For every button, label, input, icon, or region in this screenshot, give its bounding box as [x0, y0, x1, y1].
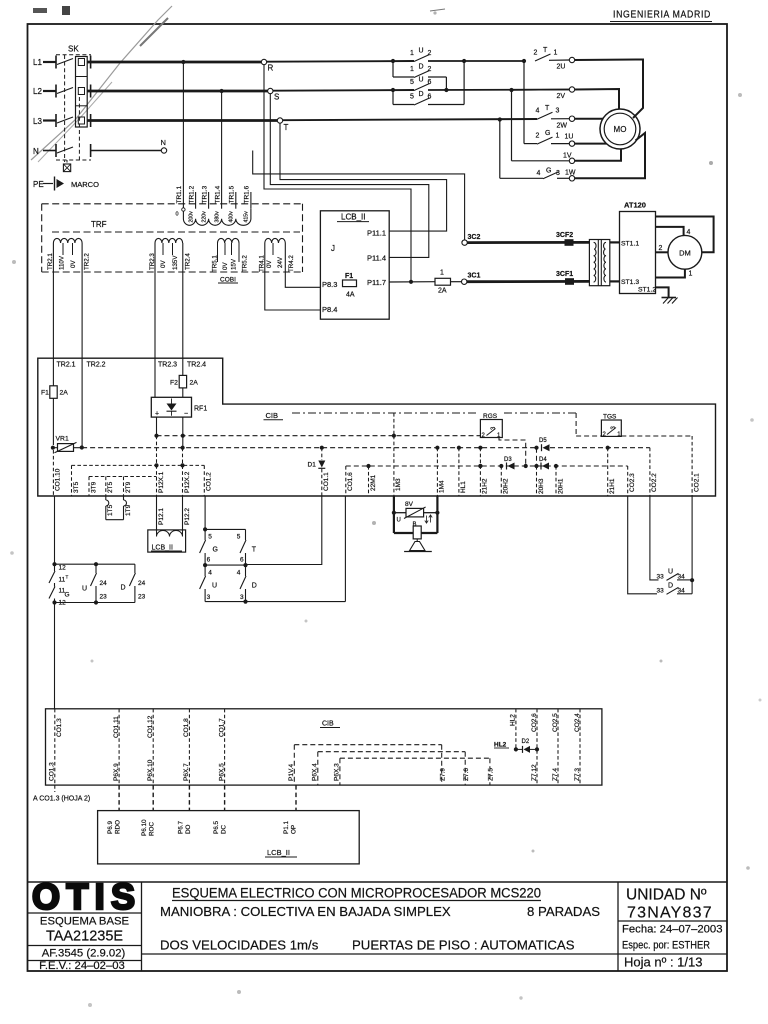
- svg-text:33: 33: [657, 587, 665, 594]
- terminal 1V: [569, 158, 574, 163]
- svg-text:135V: 135V: [172, 255, 179, 270]
- wire 1D2 branch: [392, 61, 394, 77]
- svg-text:DO: DO: [185, 824, 192, 834]
- wire 20H2 stub: [500, 466, 502, 496]
- wire 2T9 stub: [123, 477, 125, 497]
- svg-text:3T5: 3T5: [73, 481, 80, 493]
- svg-text:L3: L3: [33, 117, 42, 126]
- wire DM-AT120 1: [656, 269, 685, 277]
- bus line 435 (RF1 minus): [157, 435, 481, 437]
- wire CO1.6 stub: [345, 466, 347, 496]
- svg-text:HL2: HL2: [510, 714, 517, 726]
- svg-text:MARCO: MARCO: [71, 180, 99, 189]
- terminal 2V: [569, 87, 574, 92]
- fuse F1 2A: [50, 386, 57, 399]
- wire CO2.3 upper: [627, 466, 629, 496]
- wire TR2.1 lead: [52, 243, 54, 386]
- svg-text:5: 5: [237, 534, 241, 541]
- svg-text:2: 2: [534, 50, 538, 57]
- svg-text:TR1.4: TR1.4: [214, 185, 221, 203]
- svg-text:COBI: COBI: [220, 277, 236, 284]
- svg-text:D2: D2: [522, 739, 530, 745]
- svg-text:5: 5: [208, 534, 212, 541]
- svg-text:TR1.5: TR1.5: [229, 185, 236, 203]
- junction 1U2 left: [391, 59, 395, 63]
- svg-text:3C1: 3C1: [468, 273, 481, 280]
- svg-text:P12.1: P12.1: [158, 508, 165, 525]
- svg-text:1V: 1V: [563, 153, 572, 160]
- wire motor 1U: [575, 143, 607, 145]
- diode D2: [516, 748, 523, 750]
- svg-text:400v: 400v: [229, 211, 235, 223]
- wire 5D6 right: [428, 104, 464, 106]
- svg-text:TR2.4: TR2.4: [184, 253, 191, 270]
- wire 5D6 branch: [392, 90, 394, 105]
- svg-text:3T9: 3T9: [90, 481, 97, 493]
- relay TGS: [601, 420, 621, 436]
- secondary winding TR4.1-TR4.2: [265, 238, 286, 243]
- dashed bracket P6X.3-Z7.5: [340, 757, 490, 759]
- inductor 1T5: [105, 496, 107, 500]
- wire CO1.10 to contact block: [54, 496, 56, 564]
- svg-text:2A: 2A: [190, 380, 199, 387]
- svg-text:S: S: [274, 93, 279, 102]
- svg-text:D3: D3: [504, 457, 512, 463]
- contact T 5-6: [245, 529, 247, 540]
- svg-text:12: 12: [59, 565, 67, 572]
- wire CO2.3 down: [628, 496, 657, 594]
- svg-text:P11.1: P11.1: [367, 228, 386, 237]
- wire CO2.1 down: [691, 496, 693, 594]
- wire 3T5 stub: [71, 465, 73, 496]
- svg-text:1W: 1W: [565, 170, 576, 177]
- svg-text:6: 6: [428, 79, 432, 86]
- wire 1U2 right: [428, 60, 524, 62]
- node T: [277, 118, 282, 123]
- terminal 1U: [569, 141, 574, 146]
- svg-text:P6X.3: P6X.3: [334, 763, 341, 781]
- motor MO: [600, 109, 640, 149]
- ground: [662, 297, 677, 299]
- paper noise speckles: [709, 161, 713, 165]
- svg-text:D: D: [121, 585, 126, 592]
- controller LCB_II box lower: [98, 811, 360, 864]
- svg-text:20H3: 20H3: [538, 478, 545, 494]
- contact block G door left: [52, 562, 56, 566]
- svg-text:PUERTAS DE PISO : AUTOMATICAS: PUERTAS DE PISO : AUTOMATICAS: [352, 938, 575, 953]
- wire CO1.6 down: [344, 496, 346, 602]
- inductor 1T9: [123, 496, 125, 500]
- svg-text:CO2.3: CO2.3: [629, 473, 636, 492]
- switch SK blades: [57, 59, 73, 65]
- diode D5: [543, 444, 550, 451]
- svg-text:Z7.9: Z7.9: [439, 768, 446, 781]
- wire CO1.2 stub: [203, 465, 205, 496]
- junction L2-TR1.4: [220, 89, 224, 93]
- svg-text:MO: MO: [614, 125, 627, 134]
- svg-text:TR2.1: TR2.1: [57, 362, 76, 369]
- svg-text:P11.4: P11.4: [367, 254, 386, 263]
- svg-text:5: 5: [410, 79, 414, 86]
- svg-text:LCB_II: LCB_II: [152, 545, 173, 552]
- wire CO1.11/P6X.9: [118, 709, 120, 785]
- svg-text:73NAY837: 73NAY837: [627, 905, 713, 922]
- svg-text:24V: 24V: [277, 256, 284, 268]
- wire ST1.2 to ground: [656, 287, 669, 297]
- wire AT120-DM top: [656, 227, 684, 235]
- svg-text:CO1.10: CO1.10: [55, 468, 62, 491]
- svg-text:CO2.6: CO2.6: [531, 713, 538, 732]
- svg-text:T: T: [66, 575, 69, 580]
- diode D1 on CO1.1: [321, 448, 323, 460]
- connector 3CF2: [565, 239, 574, 246]
- svg-text:TR1.2: TR1.2: [188, 185, 195, 203]
- svg-text:CO1.2: CO1.2: [206, 472, 213, 491]
- svg-text:F.E.V.: 24–02–03: F.E.V.: 24–02–03: [39, 960, 125, 972]
- svg-text:N: N: [33, 147, 39, 156]
- svg-text:TAA21235E: TAA21235E: [46, 929, 123, 945]
- terminal 3C2: [462, 240, 467, 245]
- wire motor 1V: [575, 149, 621, 161]
- transformer TRF core dashed line: [52, 231, 300, 233]
- svg-text:2: 2: [659, 245, 663, 252]
- wire AT120-DM 2: [656, 251, 668, 253]
- junction P11.7: [409, 280, 413, 284]
- svg-text:SK: SK: [68, 45, 79, 54]
- svg-text:CO2.2: CO2.2: [651, 473, 658, 492]
- svg-text:2T9: 2T9: [125, 481, 132, 493]
- secondary winding TR2.3-TR2.4: [155, 238, 183, 243]
- svg-text:RDO: RDO: [115, 820, 122, 834]
- wire TR4.2 to P8.3: [285, 243, 320, 287]
- wire motor 2V: [575, 89, 619, 109]
- dashed bracket P1V.4-Z7.9: [294, 744, 441, 746]
- wire N to 3C2: [253, 151, 465, 240]
- rectifier RF1: [151, 397, 191, 417]
- svg-text:CO1.7: CO1.7: [218, 718, 225, 737]
- transformer TRF dashed box: [42, 203, 303, 205]
- svg-text:TR1.3: TR1.3: [201, 185, 208, 203]
- secondary winding TR2.1-TR2.2: [53, 238, 82, 243]
- wire RF1 minus lead: [156, 417, 158, 436]
- svg-text:1: 1: [554, 50, 558, 57]
- svg-text:+: +: [155, 411, 159, 418]
- wire 5U6 right: [428, 89, 572, 92]
- title block frame: [28, 881, 728, 883]
- wire mid row: [205, 564, 245, 566]
- svg-text:2: 2: [536, 133, 540, 140]
- wire G-T top row: [205, 528, 245, 530]
- wire 3T9 stub: [88, 477, 90, 497]
- wire 2T5 stub: [105, 477, 107, 497]
- svg-text:D5: D5: [539, 438, 547, 444]
- contact U 4-3: [204, 565, 206, 576]
- svg-text:21H1: 21H1: [609, 478, 616, 494]
- switch SK pole brackets: [55, 56, 57, 69]
- wire CO1.2 to G/T contacts: [204, 496, 206, 529]
- wire N main: [91, 150, 162, 152]
- svg-text:T: T: [543, 47, 548, 54]
- fuse F1 4A: [343, 280, 357, 287]
- wire L3 main: [87, 119, 277, 122]
- wires CIB to LCB_II: [118, 785, 120, 811]
- coil LCB_II box: [148, 530, 186, 552]
- svg-text:HL1: HL1: [460, 481, 467, 493]
- wire 4G3 branch: [499, 120, 501, 179]
- svg-text:20H2: 20H2: [503, 478, 510, 494]
- svg-text:415v: 415v: [244, 211, 250, 223]
- wire 5D6 to 1U2: [463, 61, 465, 105]
- svg-text:0: 0: [176, 212, 179, 218]
- wire P12.2: [182, 496, 184, 532]
- svg-text:0V: 0V: [70, 260, 77, 268]
- junction L1-TR1.1: [181, 60, 185, 64]
- svg-text:Z7.12: Z7.12: [531, 764, 538, 781]
- wire RF1 plus lead: [182, 417, 184, 448]
- wire CO1.12/P6X.10: [152, 709, 154, 785]
- svg-text:HL2: HL2: [494, 742, 507, 749]
- svg-text:1: 1: [689, 271, 693, 278]
- svg-text:Z7.4: Z7.4: [552, 768, 559, 781]
- secondary winding TR5.1-TR5.2 COBI: [218, 238, 240, 243]
- bus hB: [89, 476, 157, 478]
- wire HL1 stub: [458, 448, 460, 496]
- wire TR2.3 lead: [154, 243, 156, 397]
- wire contact row bottom-left: [55, 602, 135, 604]
- bus hA: [72, 464, 205, 466]
- earth symbol PE / MARCO: [43, 183, 53, 185]
- bus line 466: [346, 465, 628, 467]
- wire CO2.6/Z7.12: [536, 709, 538, 785]
- svg-text:23: 23: [100, 594, 108, 601]
- contact 2G1: [537, 137, 553, 144]
- bus line 448 (RF1 plus): [82, 447, 538, 449]
- svg-text:TRF: TRF: [91, 220, 107, 229]
- svg-text:2U: 2U: [557, 64, 566, 71]
- svg-text:U: U: [212, 583, 217, 590]
- svg-text:ESQUEMA ELECTRICO CON MICROPRO: ESQUEMA ELECTRICO CON MICROPROCESADOR MC…: [172, 886, 541, 902]
- svg-text:6: 6: [428, 94, 432, 101]
- svg-text:8V: 8V: [405, 501, 414, 508]
- svg-text:CO1.1: CO1.1: [323, 472, 330, 491]
- svg-text:22M1: 22M1: [370, 474, 377, 491]
- svg-text:P6.7: P6.7: [178, 821, 185, 834]
- svg-text:21H2: 21H2: [482, 478, 489, 494]
- buzzer element: [413, 526, 421, 539]
- wire 2V row: [512, 89, 570, 92]
- svg-text:Fecha: 24–07–2003: Fecha: 24–07–2003: [622, 924, 723, 936]
- svg-text:4: 4: [208, 570, 212, 577]
- svg-text:T: T: [252, 547, 257, 554]
- svg-text:CO2.5: CO2.5: [552, 713, 559, 732]
- motor DM: [668, 235, 702, 269]
- svg-text:VR1: VR1: [56, 436, 69, 443]
- fuse block SK: [76, 57, 88, 128]
- svg-text:CO1.8: CO1.8: [183, 718, 190, 737]
- wire T row: [283, 119, 537, 120]
- connector 3CF1: [565, 278, 574, 285]
- wire contact row top-left: [55, 563, 135, 565]
- svg-text:2W: 2W: [557, 123, 568, 130]
- wire L2 main: [87, 90, 267, 93]
- diode D3: [508, 463, 515, 470]
- wire 22M1 stub: [368, 466, 370, 496]
- annotation A CO1.3 HOJA 2: [54, 785, 56, 792]
- svg-text:1U: 1U: [565, 134, 574, 141]
- svg-text:110V: 110V: [58, 255, 65, 270]
- fuse 1 2A: [435, 278, 451, 285]
- svg-text:DM: DM: [679, 248, 691, 257]
- contact 5U6: [414, 84, 430, 91]
- contact U 23-24: [95, 564, 97, 573]
- wire P12X.1: [156, 436, 158, 496]
- svg-text:P1V.4: P1V.4: [288, 764, 295, 781]
- svg-text:N: N: [161, 138, 166, 147]
- svg-text:4: 4: [537, 170, 541, 177]
- fuse F2 2A: [179, 375, 186, 388]
- svg-text:DC: DC: [221, 824, 228, 834]
- scan artifact diagonal pencil mark: [31, 6, 172, 160]
- contact 2T1: [535, 54, 551, 61]
- svg-text:TGS: TGS: [603, 414, 617, 421]
- wire S to P11.4: [270, 94, 429, 258]
- wire CO1.10 stub: [52, 450, 54, 496]
- svg-text:P8.3: P8.3: [322, 280, 337, 289]
- primary lead stubs: [195, 192, 197, 209]
- svg-text:L1: L1: [33, 58, 42, 67]
- battery 8V and alarm bell: [393, 496, 395, 533]
- svg-text:TR1.1: TR1.1: [176, 185, 183, 203]
- svg-text:P11.7: P11.7: [367, 278, 386, 287]
- terminal 1W: [569, 176, 574, 181]
- svg-text:TR2.2: TR2.2: [87, 362, 106, 369]
- wire CO1.7/P6X.5: [224, 709, 226, 785]
- CIB dash-dot boundary: [292, 412, 478, 414]
- svg-text:G: G: [545, 130, 550, 137]
- wire 20H3 up-link: [536, 448, 538, 466]
- contact 4T3: [537, 112, 553, 119]
- svg-text:ST1.1: ST1.1: [621, 240, 639, 247]
- svg-text:AT120: AT120: [624, 201, 646, 210]
- svg-text:G: G: [546, 168, 551, 175]
- svg-text:RGS: RGS: [483, 413, 498, 420]
- svg-text:ST1.2: ST1.2: [638, 286, 656, 293]
- svg-text:D: D: [252, 583, 257, 590]
- svg-text:1M3: 1M3: [395, 478, 402, 491]
- svg-text:2T5: 2T5: [107, 481, 114, 493]
- svg-text:ESQUEMA BASE: ESQUEMA BASE: [40, 916, 130, 928]
- svg-text:TR5.1: TR5.1: [211, 255, 218, 272]
- contact 1D2: [414, 71, 430, 78]
- svg-text:3CF2: 3CF2: [556, 232, 573, 239]
- svg-text:24: 24: [138, 580, 146, 587]
- wire bottom row to CO1.6: [205, 601, 345, 603]
- junction 5U6 left: [391, 88, 395, 92]
- svg-text:P12.2: P12.2: [184, 508, 191, 525]
- svg-text:Z7.3: Z7.3: [574, 768, 581, 781]
- contact 4G3: [543, 172, 559, 179]
- svg-text:P6.5: P6.5: [213, 821, 220, 834]
- wire CO2.2 upper: [649, 448, 651, 496]
- wire 20H1 stub: [555, 466, 557, 496]
- svg-text:MANIOBRA : COLECTIVA EN BAJADA: MANIOBRA : COLECTIVA EN BAJADA SIMPLEX: [160, 904, 451, 919]
- svg-text:Z7.5: Z7.5: [488, 768, 495, 781]
- svg-text:P6X.5: P6X.5: [218, 763, 225, 781]
- svg-text:INGENIERIA MADRID: INGENIERIA MADRID: [613, 9, 711, 21]
- node N: [161, 148, 166, 153]
- terminal 2U: [569, 57, 574, 62]
- svg-text:U: U: [397, 518, 401, 524]
- svg-text:24: 24: [100, 580, 108, 587]
- svg-text:F2: F2: [170, 380, 178, 387]
- svg-text:TR4.2: TR4.2: [288, 255, 295, 272]
- svg-text:3: 3: [556, 108, 560, 115]
- primary lead TR1.4 from L2: [221, 91, 223, 209]
- svg-text:OP: OP: [291, 825, 298, 834]
- svg-text:U: U: [668, 569, 673, 576]
- svg-text:Hoja nº : 1/13: Hoja nº : 1/13: [624, 955, 702, 970]
- svg-text:PE: PE: [33, 180, 44, 189]
- svg-text:−: −: [184, 411, 188, 418]
- svg-text:CO1.6: CO1.6: [347, 472, 354, 491]
- svg-text:OTIS: OTIS: [32, 876, 136, 917]
- junction 33U34-CO2.1: [690, 578, 694, 582]
- svg-text:4: 4: [237, 570, 241, 577]
- node S: [268, 88, 273, 93]
- svg-text:ST1.3: ST1.3: [621, 279, 639, 286]
- svg-text:T: T: [284, 123, 289, 132]
- svg-text:U: U: [419, 48, 424, 55]
- relay RGS: [480, 420, 502, 438]
- svg-text:CO2.1: CO2.1: [693, 473, 700, 492]
- svg-text:TR2.4: TR2.4: [187, 362, 206, 369]
- svg-text:1T5: 1T5: [107, 504, 114, 516]
- svg-text:3C2: 3C2: [468, 234, 481, 241]
- primary lead TR1.1 from L1: [182, 62, 184, 209]
- svg-text:A CO1.3 (HOJA 2): A CO1.3 (HOJA 2): [33, 796, 90, 803]
- svg-text:CO1.11: CO1.11: [113, 716, 120, 738]
- svg-text:Espec. por: ESTHER: Espec. por: ESTHER: [622, 940, 710, 952]
- transformer primary winding TR1: [183, 209, 251, 226]
- svg-text:P12X.1: P12X.1: [158, 471, 165, 493]
- svg-text:D1: D1: [308, 462, 317, 469]
- svg-text:15V: 15V: [230, 258, 237, 270]
- svg-text:1: 1: [556, 133, 560, 140]
- svg-text:1T9: 1T9: [125, 504, 132, 516]
- contact D 4-3: [245, 565, 247, 576]
- svg-text:0V: 0V: [222, 262, 229, 270]
- svg-text:5: 5: [410, 94, 414, 101]
- wire CO1.8/P6X.7: [188, 709, 190, 785]
- wire P12X.2: [182, 448, 184, 466]
- svg-text:TR2.3: TR2.3: [158, 362, 177, 369]
- wire ST1.1: [610, 241, 620, 243]
- svg-text:F1: F1: [41, 390, 49, 397]
- svg-text:P8.4: P8.4: [322, 305, 337, 314]
- wire motor 2U: [575, 60, 643, 119]
- drive unit AT120 box: [620, 212, 656, 294]
- svg-text:1: 1: [440, 270, 444, 277]
- svg-text:3: 3: [207, 594, 211, 601]
- svg-text:D4: D4: [539, 457, 547, 463]
- wire CO2.5/Z7.4: [557, 709, 559, 785]
- transformer 3CF: [589, 240, 609, 286]
- svg-text:2: 2: [428, 50, 432, 57]
- wire CO2.4/Z7.3: [579, 709, 581, 785]
- svg-text:1: 1: [410, 50, 414, 57]
- wire RGS pin1 jog: [499, 438, 526, 467]
- svg-text:F1: F1: [345, 273, 353, 280]
